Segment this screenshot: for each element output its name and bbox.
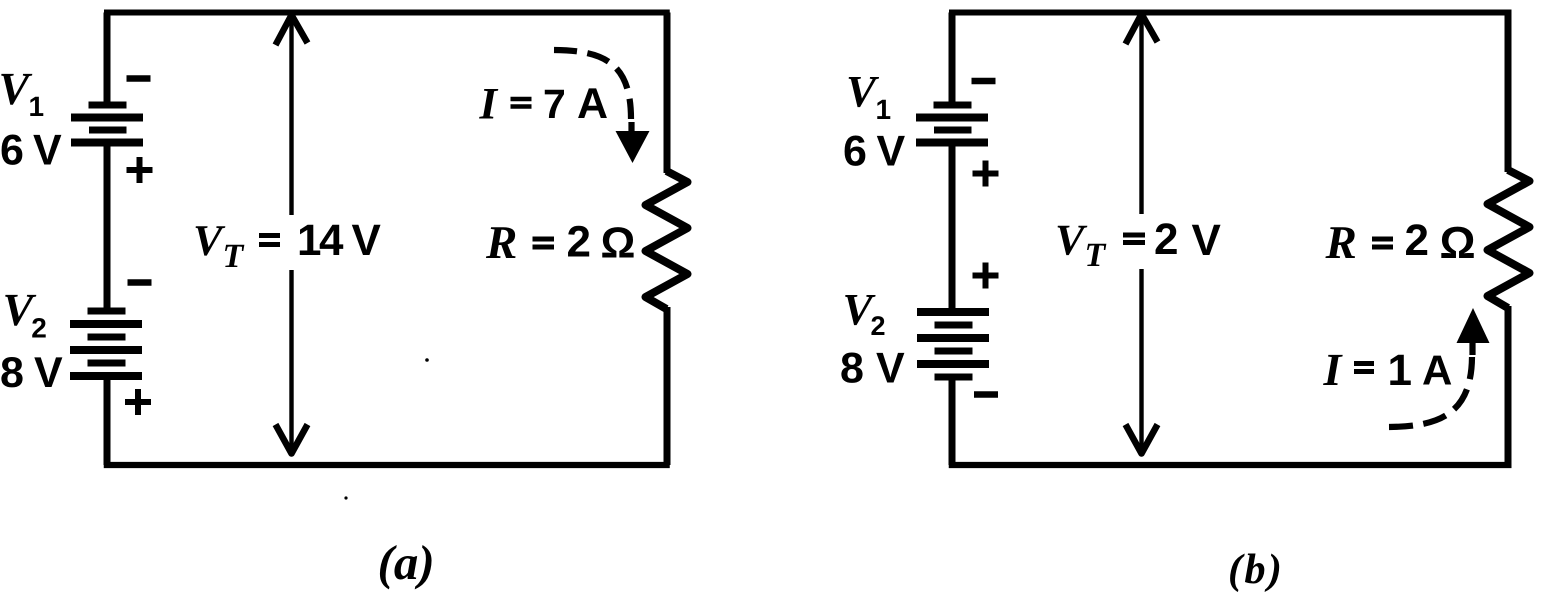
svg-text:14: 14 xyxy=(297,216,344,265)
wire bottom (a) xyxy=(104,462,670,468)
current arrow I (a) xyxy=(554,50,650,163)
svg-text:2: 2 xyxy=(871,311,886,341)
resistor R (b) xyxy=(1488,170,1530,308)
svg-text:R: R xyxy=(485,217,517,269)
svg-text:6: 6 xyxy=(0,127,24,175)
svg-text:V: V xyxy=(1055,216,1088,265)
minus terminal V2 (a) xyxy=(128,279,152,286)
svg-text:I: I xyxy=(1323,344,1344,395)
svg-text:8: 8 xyxy=(0,349,24,397)
label R = 2 ohm (b) xyxy=(1325,216,1476,269)
wire left middle (a) xyxy=(104,145,111,310)
wire right upper (a) xyxy=(664,13,671,174)
svg-text:2: 2 xyxy=(1154,215,1178,264)
wire right lower (a) xyxy=(664,307,671,465)
label R = 2 ohm (a) xyxy=(485,217,635,269)
wire top (a) xyxy=(104,10,670,16)
resistor R (a) xyxy=(646,171,688,309)
svg-text:A: A xyxy=(1422,347,1452,394)
wire left upper (b) xyxy=(949,13,956,103)
svg-text:1: 1 xyxy=(29,91,45,122)
label I = 7 A (a) xyxy=(479,79,609,129)
svg-text:V: V xyxy=(877,128,906,176)
plus terminal V2 (b) xyxy=(973,263,999,289)
scan speck dot 1 xyxy=(344,496,347,499)
wire left middle (b) xyxy=(949,145,956,312)
svg-text:8: 8 xyxy=(840,345,864,393)
battery V2 (a) xyxy=(70,311,142,376)
plus terminal V2 (a) xyxy=(125,389,151,415)
wire left upper (a) xyxy=(104,13,111,103)
svg-text:Ω: Ω xyxy=(1440,217,1476,268)
label VT = 14 V (a) xyxy=(193,216,382,275)
svg-text:(a): (a) xyxy=(378,535,435,590)
svg-text:V: V xyxy=(193,216,226,265)
svg-text:V: V xyxy=(1192,216,1222,265)
wire top (b) xyxy=(949,10,1512,16)
minus terminal V2 (b) xyxy=(974,391,998,398)
minus terminal V1 (b) xyxy=(972,78,996,85)
wire bottom (b) xyxy=(949,462,1512,468)
svg-text:V: V xyxy=(352,216,382,265)
label VT = 2 V (b) xyxy=(1055,215,1222,274)
svg-text:1: 1 xyxy=(876,94,892,125)
label I = 1 A (b) xyxy=(1323,344,1453,395)
svg-text:A: A xyxy=(577,80,608,128)
svg-text:7: 7 xyxy=(543,81,566,127)
battery V1 (b) xyxy=(916,105,988,143)
svg-text:V: V xyxy=(34,349,63,397)
svg-text:2: 2 xyxy=(1405,216,1429,265)
svg-text:T: T xyxy=(1085,237,1107,274)
wire left lower (b) xyxy=(949,379,956,465)
voltage arrow VT (a) xyxy=(276,15,308,454)
svg-text:V: V xyxy=(33,127,62,175)
svg-text:I: I xyxy=(479,79,499,129)
minus terminal V1 (a) xyxy=(127,75,151,82)
svg-text:1: 1 xyxy=(1388,346,1412,395)
current arrow I (b) xyxy=(1389,308,1490,427)
svg-text:2: 2 xyxy=(31,313,47,344)
battery V1 (a) xyxy=(71,105,143,143)
battery V2 (b) xyxy=(917,312,989,377)
wire left lower (a) xyxy=(104,378,111,465)
svg-text:(b): (b) xyxy=(1228,546,1284,593)
plus terminal V1 (a) xyxy=(127,157,153,183)
scan speck dot 2 xyxy=(425,358,429,362)
svg-text:T: T xyxy=(223,238,245,275)
svg-text:V: V xyxy=(876,345,905,393)
plus terminal V1 (b) xyxy=(973,161,999,187)
svg-text:Ω: Ω xyxy=(601,220,636,268)
wire right lower (b) xyxy=(1505,306,1512,465)
svg-text:6: 6 xyxy=(843,128,867,176)
svg-text:2: 2 xyxy=(567,218,591,267)
voltage arrow VT (b) xyxy=(1126,14,1158,454)
wire right upper (b) xyxy=(1505,13,1512,173)
svg-text:R: R xyxy=(1325,217,1357,269)
